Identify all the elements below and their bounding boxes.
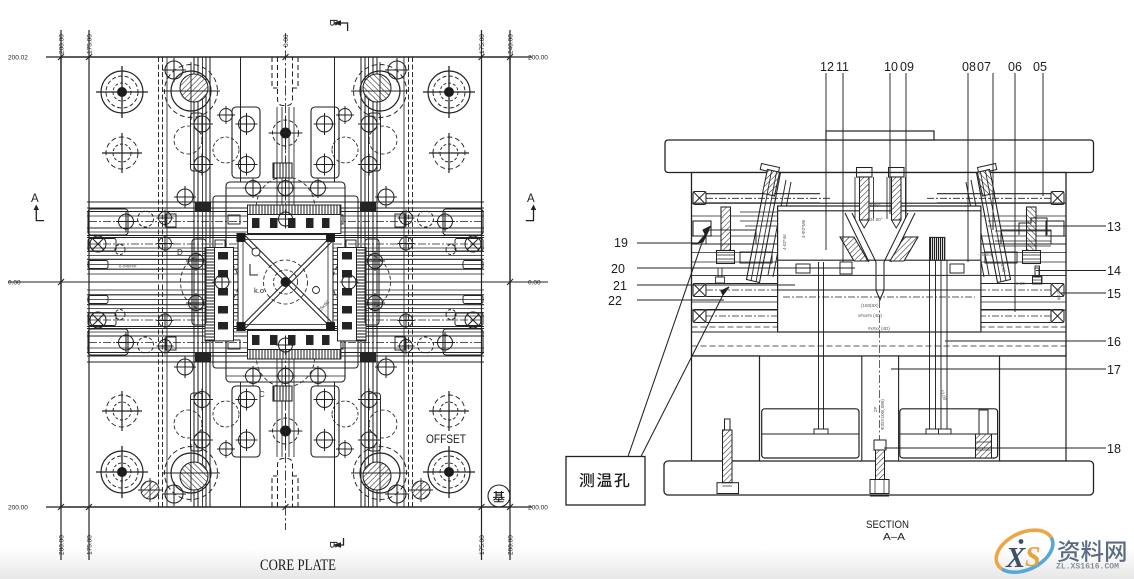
dimension extension left 200 <box>60 30 62 560</box>
svg-text:0.00: 0.00 <box>8 280 21 287</box>
svg-text:8-M8#x#: 8-M8#x# <box>119 264 137 269</box>
ejector housing left rail <box>692 356 760 461</box>
svg-text:C: C <box>259 390 265 399</box>
centre bolts <box>857 168 873 229</box>
small bolt top <box>162 58 186 82</box>
svg-text:-34.00°: -34.00° <box>868 217 883 222</box>
callout leaders right <box>884 226 1106 448</box>
datum circle <box>488 485 510 507</box>
small bolt mid <box>217 106 235 124</box>
return pin end <box>693 192 706 205</box>
svg-text:200.00: 200.00 <box>508 535 515 555</box>
bottom clamp plate <box>664 461 1094 495</box>
centre bottom circle <box>269 414 303 448</box>
right callout numbers <box>1107 220 1121 456</box>
ejector plate left <box>762 409 859 458</box>
dimension line bottom <box>46 506 532 508</box>
rail corner bolt <box>116 212 136 232</box>
tall side plates <box>192 239 206 325</box>
bolt c2 <box>236 154 258 176</box>
locating tab <box>826 131 934 140</box>
svg-text:16: 16 <box>1107 335 1121 349</box>
bottom screw centre <box>870 440 889 496</box>
svg-text:(150(8X): (150(8X) <box>861 303 879 308</box>
wedge right <box>890 237 918 261</box>
svg-text:Φ35X100(.080): Φ35X100(.080) <box>880 399 885 430</box>
section arrows B <box>327 19 348 548</box>
svg-text:A: A <box>527 193 535 205</box>
rail end block <box>88 209 128 235</box>
dimension extension left 175 <box>88 30 90 560</box>
small core details <box>840 262 852 274</box>
gib dashed circles <box>257 177 315 235</box>
svg-text:14: 14 <box>1107 264 1121 278</box>
swoosh ellipse arcs <box>990 522 1060 579</box>
svg-text:22: 22 <box>608 294 622 308</box>
right gib hatched strip <box>357 248 367 341</box>
svg-text:200.00: 200.00 <box>528 55 548 62</box>
callout leaders top <box>826 73 1043 312</box>
svg-text:A: A <box>31 193 39 205</box>
bolt circle with X at rail end <box>90 236 106 252</box>
svg-text:0.00: 0.00 <box>528 280 541 287</box>
bottom gib blocks <box>252 335 260 345</box>
thermo leader lines <box>628 226 729 457</box>
left gib blocks <box>218 252 228 260</box>
svg-text:175.00: 175.00 <box>87 535 94 555</box>
cavity circles <box>274 270 298 294</box>
centre top circle <box>269 116 303 150</box>
svg-text:175.00: 175.00 <box>479 535 486 555</box>
svg-text:19: 19 <box>614 236 628 250</box>
svg-text:07: 07 <box>977 60 991 74</box>
callout leaders left <box>637 230 855 300</box>
svg-text:10: 10 <box>884 60 898 74</box>
left view dim labels horizontal <box>8 55 548 512</box>
small hatched eyebolts bottom <box>138 478 433 502</box>
slide bolt 2 <box>693 284 706 297</box>
svg-text:05: 05 <box>1033 60 1047 74</box>
svg-text:φ6.00: φ6.00 <box>1056 288 1061 300</box>
right slide ladder lines <box>740 212 1051 246</box>
X link bars <box>237 234 335 331</box>
svg-text:200.00: 200.00 <box>59 535 66 555</box>
runner block bottom <box>273 386 292 401</box>
plate split lines <box>692 202 1067 204</box>
top callout numbers <box>820 60 1047 74</box>
rotated top labels <box>59 34 515 555</box>
cavity edge bolts NSEW <box>213 178 359 386</box>
dashed circle features <box>174 126 202 154</box>
angle pin cap <box>760 164 779 174</box>
quadrant master group (top-left) <box>87 57 286 282</box>
logo dot <box>1019 539 1024 544</box>
bottom gib hatched strip <box>248 350 341 360</box>
svg-text:X: X <box>1005 542 1026 574</box>
svg-text:09: 09 <box>900 60 914 74</box>
top clamp plate <box>665 140 1094 173</box>
svg-text:SECTION: SECTION <box>866 519 909 531</box>
frame corner bolt <box>174 186 196 208</box>
top gib hatched strip <box>248 205 341 215</box>
core plate outline <box>61 57 510 507</box>
bottom screw left <box>717 419 739 494</box>
svg-text:CORE PLATE: CORE PLATE <box>260 557 336 574</box>
svg-text:20: 20 <box>611 262 625 276</box>
small screw below <box>718 268 722 277</box>
svg-text:S: S <box>1025 542 1041 573</box>
slide bolt 3 <box>693 310 706 323</box>
bolt plate vertical <box>232 107 260 178</box>
inner mechanism small rects <box>228 215 240 224</box>
bolt row lines <box>226 187 345 189</box>
left slide group <box>693 164 830 323</box>
svg-text:15: 15 <box>1107 287 1121 301</box>
tiny annotations <box>782 203 1061 430</box>
brand text <box>1058 540 1126 562</box>
left callout numbers <box>608 236 628 308</box>
svg-text:ZL.XS1616.COM: ZL.XS1616.COM <box>1056 563 1119 572</box>
medium dashed crosshair <box>102 133 142 173</box>
thermo hole text <box>580 473 630 487</box>
svg-text:D: D <box>177 248 183 257</box>
svg-text:k.o: k.o <box>254 286 264 295</box>
bolt c1 <box>236 113 258 135</box>
slide body blocks <box>693 221 711 236</box>
sprue slot bottom (dashed counterbore) <box>272 459 298 508</box>
angle pin <box>747 170 781 283</box>
svg-text:-15.00(: -15.00( <box>978 252 993 257</box>
svg-text:18: 18 <box>1107 442 1121 456</box>
horizontal slide rails <box>87 201 286 203</box>
svg-text:A–A: A–A <box>883 532 905 543</box>
svg-text:08: 08 <box>962 60 976 74</box>
gib corner bolts <box>243 178 263 198</box>
sprue pocket edge lines <box>241 57 335 507</box>
svg-text:11: 11 <box>836 60 849 74</box>
svg-text:4-Φ2*M6: 4-Φ2*M6 <box>801 219 806 238</box>
central frame rect <box>226 182 345 382</box>
svg-text:175.00: 175.00 <box>479 34 486 54</box>
right gib blocks <box>342 252 352 260</box>
dimension extension right 175 <box>481 30 483 560</box>
core centre block <box>778 206 981 332</box>
runner block top <box>273 163 292 178</box>
svg-text:200.00: 200.00 <box>59 34 66 54</box>
long column lines <box>158 57 160 282</box>
bolt column pair <box>191 113 213 176</box>
dimension extension right 200 <box>509 30 511 560</box>
top gib blocks <box>252 218 260 228</box>
svg-text:4-02*46: 4-02*46 <box>782 234 787 250</box>
svg-text:12: 12 <box>820 60 834 74</box>
vertical screw in slide <box>721 207 731 251</box>
dimension line top <box>46 56 532 58</box>
column bolt plate <box>191 113 203 171</box>
V runner funnel <box>845 213 915 300</box>
svg-text:175.00: 175.00 <box>87 34 94 54</box>
dimension tick slashes <box>58 54 513 510</box>
svg-text:21: 21 <box>613 279 627 293</box>
svg-text:200.00: 200.00 <box>8 505 28 512</box>
svg-text:200.02: 200.02 <box>8 55 28 62</box>
centre support pillar <box>862 356 899 462</box>
screw in right ejector plate <box>976 410 992 458</box>
vertical centreline <box>285 33 287 530</box>
ejector housing right rail <box>1000 356 1067 461</box>
svg-text:2P: 2P <box>873 406 878 412</box>
ejector sleeve cluster <box>930 237 945 260</box>
ejector pin A <box>814 262 828 434</box>
ejector plate right <box>900 409 998 458</box>
svg-text:200.00: 200.00 <box>528 505 548 512</box>
wear bracket right <box>1019 218 1047 235</box>
svg-text:OFFSET: OFFSET <box>426 434 466 446</box>
svg-text:17: 17 <box>1107 363 1121 377</box>
rail bolts mid <box>115 210 176 255</box>
svg-text:0.00: 0.00 <box>283 34 290 47</box>
svg-text:13: 13 <box>1107 220 1121 234</box>
wedge left <box>840 237 868 261</box>
left gib hatched strip <box>205 248 215 341</box>
section arrows A <box>31 193 536 221</box>
svg-text:8.50: 8.50 <box>1016 281 1025 286</box>
sprue slot top (dashed counterbore) <box>272 57 298 106</box>
thermo hole label box <box>566 457 645 506</box>
svg-text:-30.00°: -30.00° <box>866 203 881 208</box>
mould frame A/B plates <box>692 173 1067 357</box>
horizontal centreline <box>8 281 548 283</box>
svg-text:06: 06 <box>1008 60 1022 74</box>
cavity square <box>238 235 333 330</box>
svg-text:#x#xx (4D): #x#xx (4D) <box>868 326 890 331</box>
ejector sleeves down <box>926 260 951 434</box>
svg-text:x#xx#x (4D): x#xx#x (4D) <box>858 313 883 318</box>
guide pillar crosshair large <box>96 66 148 118</box>
screw item 14 <box>1033 266 1043 284</box>
hatched guide bush <box>162 62 220 120</box>
section centreline <box>879 300 881 440</box>
column-rail crossing block <box>195 203 211 213</box>
svg-text:240.00: 240.00 <box>508 34 515 54</box>
